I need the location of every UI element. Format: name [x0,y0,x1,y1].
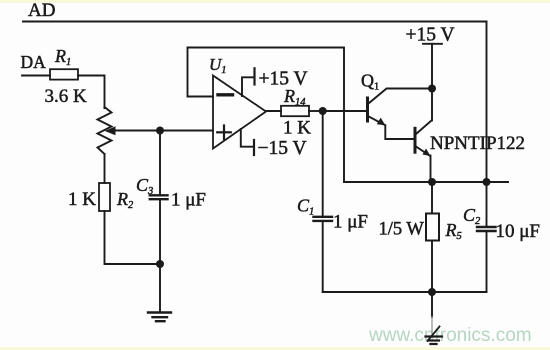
svg-text:R1: R1 [54,46,71,68]
svg-text:3.6 K: 3.6 K [45,86,88,107]
wire R1 to potentiometer [78,76,105,109]
svg-text:1 K: 1 K [283,118,311,139]
wire emitter output rail [344,181,508,183]
wire C3 to bottom junction [159,200,161,264]
node pot wiper junction [156,127,164,135]
wire junction to ground [159,264,161,313]
wire R2 to bottom junction [105,211,161,264]
wire wiper node to op-amp plus input [160,130,213,132]
capacitor C2 [477,226,496,228]
svg-text:DA: DA [21,52,47,72]
svg-text:www.cntronics.com: www.cntronics.com [368,325,532,346]
transistor Q2 TIP122 [414,128,417,152]
svg-text:U1: U1 [209,55,227,76]
wire C2 to bottom rail [486,232,488,292]
potentiometer wiper arrow [113,130,160,132]
wire R14 to output node [309,110,323,112]
wire AD right drop [486,22,488,183]
svg-text:1 μF: 1 μF [333,212,368,233]
capacitor C1 [314,216,333,218]
node Q1 collector junction [428,85,436,93]
wire op-amp -15V tap [241,129,254,147]
svg-text:R2: R2 [116,189,134,211]
ground right [426,335,443,337]
wire C1 branch [322,111,324,216]
capacitor C3 [150,194,168,196]
wire R5 top [431,182,433,213]
resistor R2 [99,183,110,211]
svg-text:R5: R5 [445,220,462,242]
wire to right ground [431,292,433,317]
op-amp U1 [213,76,266,149]
power +15V terminal bar [423,43,442,45]
svg-text:1 μF: 1 μF [171,190,206,211]
svg-text:10 μF: 10 μF [496,221,541,242]
wire pot bottom to R2 [104,154,106,183]
svg-text:AD: AD [28,0,55,21]
svg-text:C2: C2 [463,205,481,227]
node op-amp output junction [319,107,327,115]
node right ground junction [428,288,436,296]
wire bottom rail [323,291,487,293]
potentiometer zigzag [98,107,112,154]
wire C1 to bottom rail [322,222,324,292]
wire op-amp +15V tap [242,77,255,96]
svg-text:1/5 W: 1/5 W [379,220,425,240]
resistor R5 [426,214,439,241]
resistor R14 [281,106,309,116]
svg-text:−15 V: −15 V [258,138,307,159]
node emitter junction [428,178,436,186]
wire AD top rail [23,21,487,23]
transistor Q1 [366,98,369,121]
node right rail junction [483,178,491,186]
svg-text:NPNTIP122: NPNTIP122 [430,133,525,154]
svg-text:Q1: Q1 [361,71,379,93]
wire op-amp output [266,110,281,112]
ground left [148,311,171,313]
svg-text:+15 V: +15 V [406,25,455,46]
wire node to Q1 base [323,110,366,112]
resistor R1 [50,69,78,79]
svg-text:C1: C1 [297,196,314,218]
wire R5 bottom [431,241,433,293]
svg-text:C3: C3 [136,175,153,197]
wire C2 top [486,182,488,226]
wire feedback loop [188,48,345,183]
wire +15V rail [431,44,433,121]
wire DA input [22,75,50,77]
node left ground junction [156,260,164,268]
wire C3 branch top [159,131,161,195]
svg-text:1 K: 1 K [68,189,96,210]
